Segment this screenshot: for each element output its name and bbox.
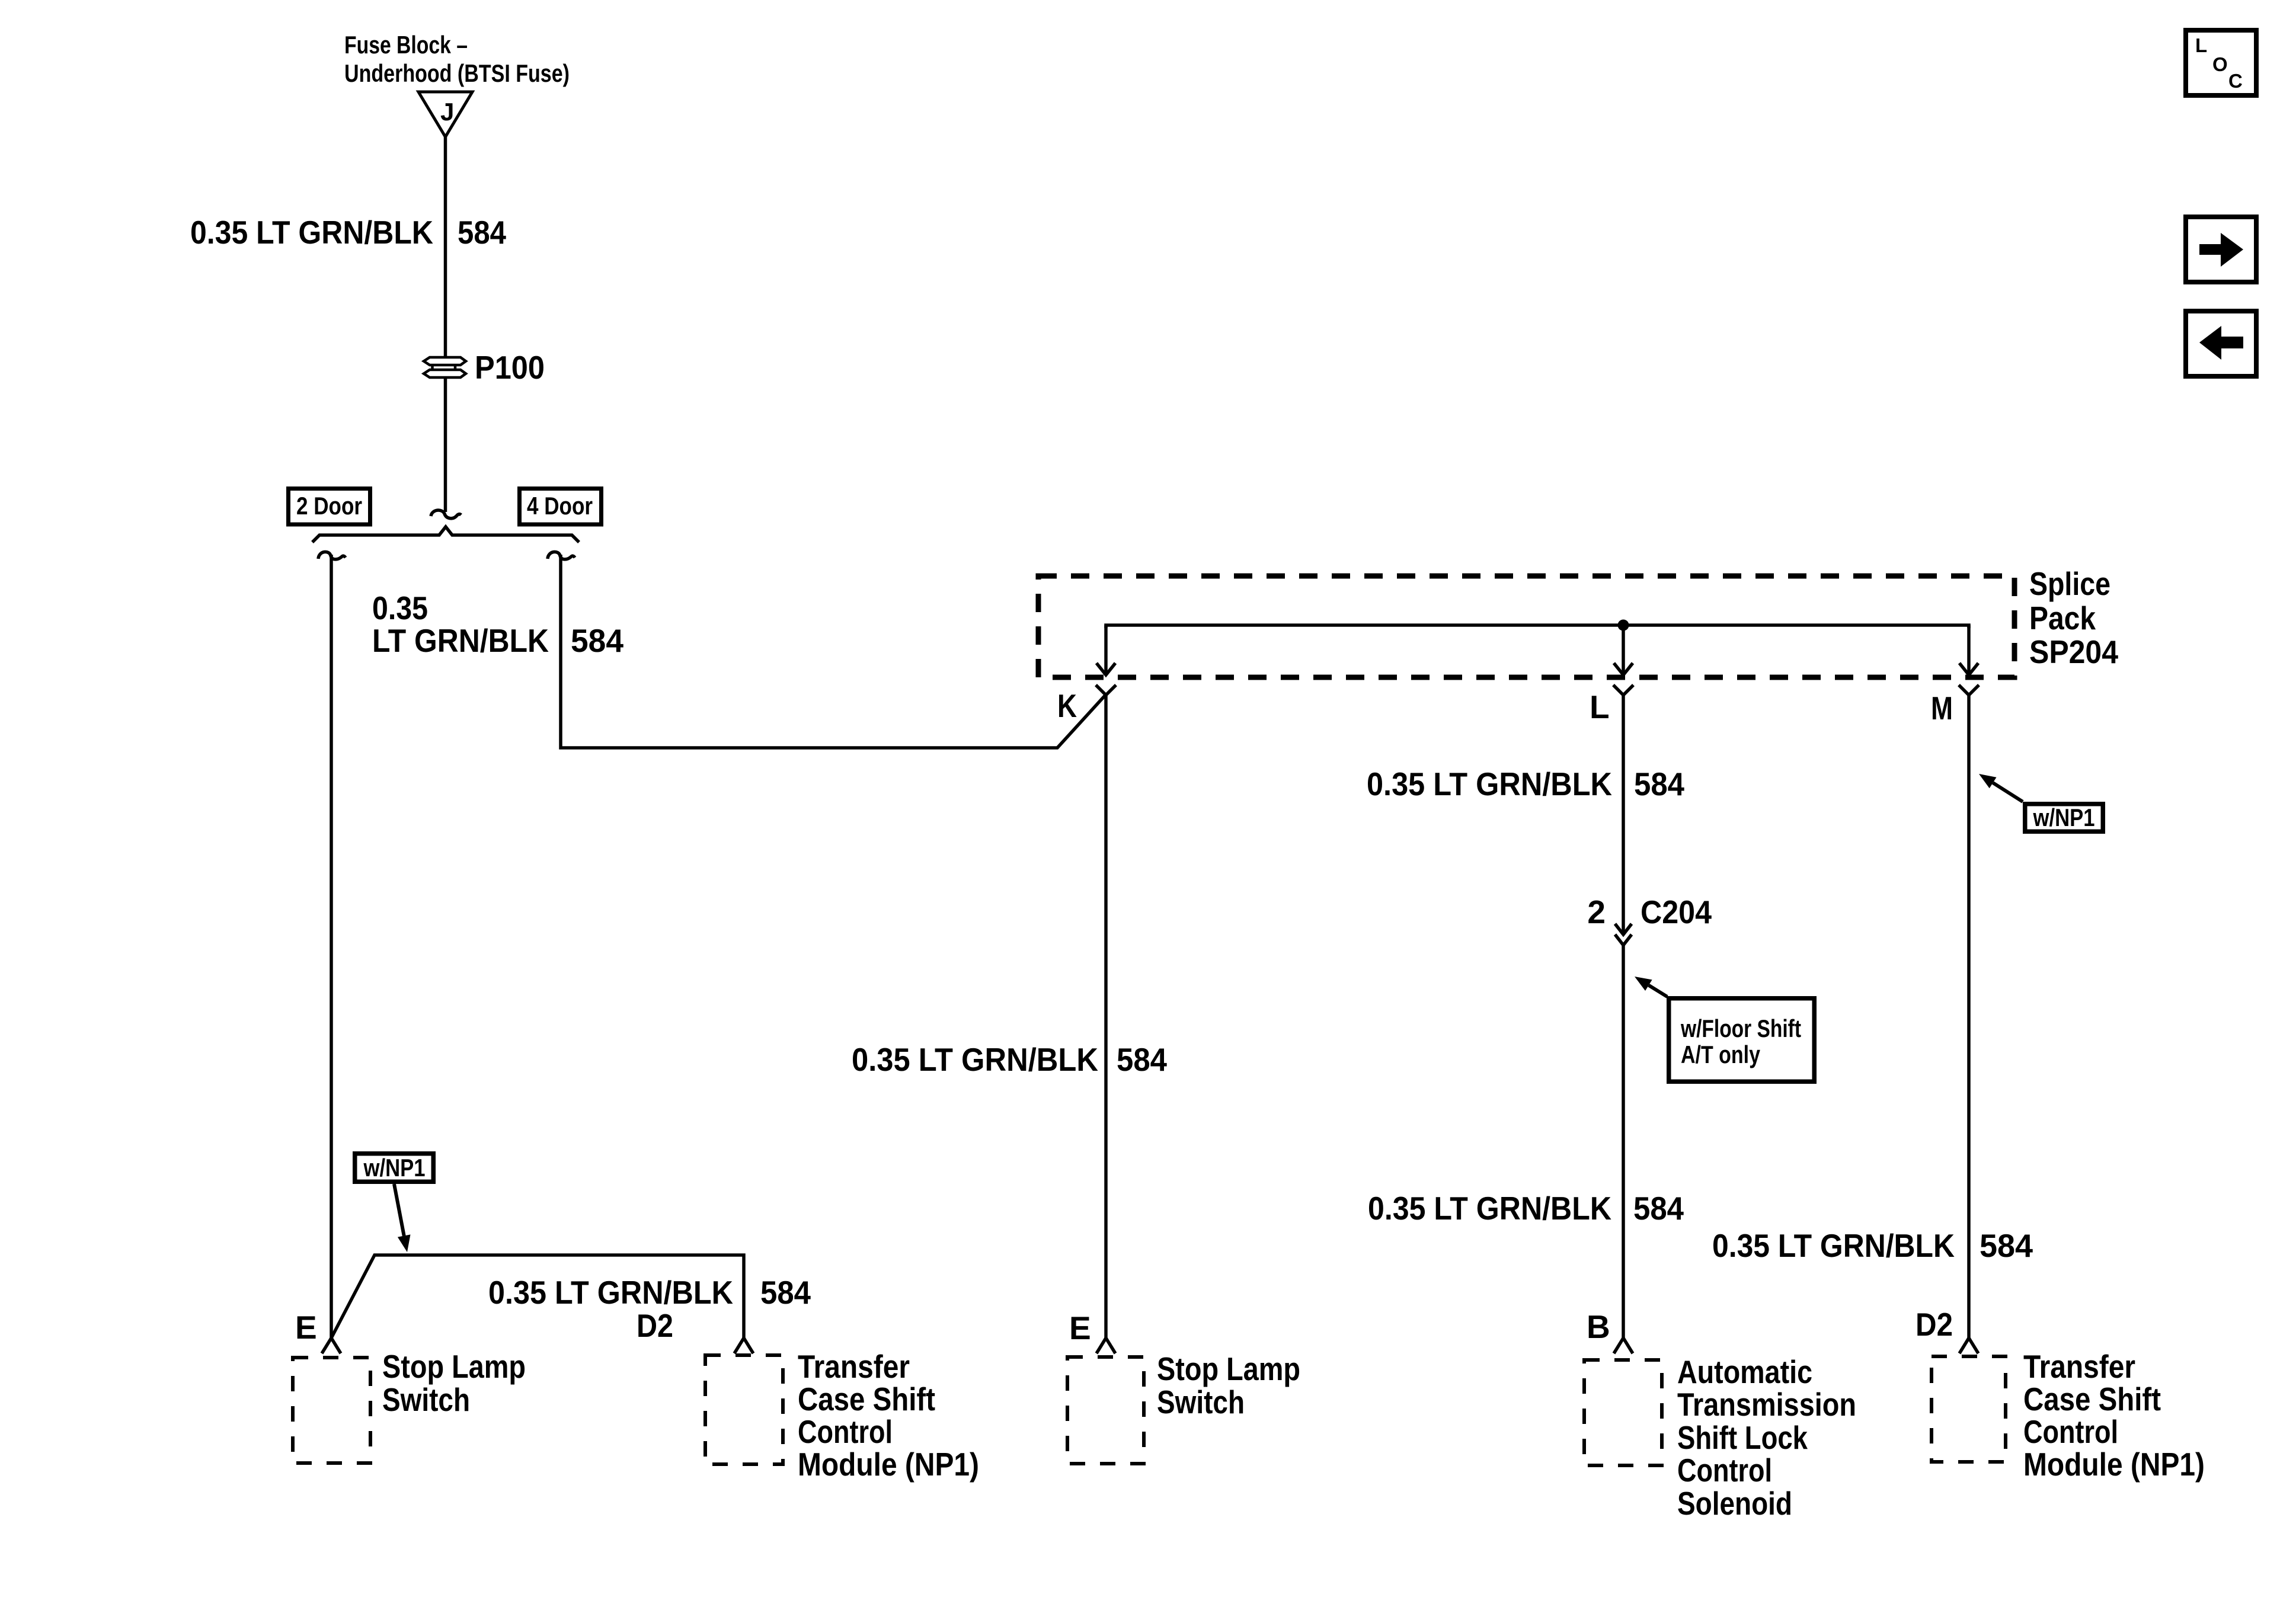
svg-text:M: M [1931,690,1953,726]
svg-text:w/NP1: w/NP1 [363,1154,426,1182]
annotation arrow to M wire [1993,783,2023,802]
svg-text:D2: D2 [1916,1306,1953,1343]
option box 2 Door [289,489,370,525]
svg-text:Stop Lamp: Stop Lamp [1157,1350,1300,1387]
svg-text:w/Floor Shift: w/Floor Shift [1680,1014,1801,1042]
svg-text:Automatic: Automatic [1677,1353,1812,1390]
svg-text:584: 584 [1633,1190,1684,1227]
terminal M below splice pack [1959,685,1979,695]
svg-text:584: 584 [1980,1227,2033,1264]
svg-text:B: B [1587,1308,1610,1345]
wire 4-door branch to splice pack terminal K [561,555,1106,748]
svg-text:0.35 LT GRN/BLK: 0.35 LT GRN/BLK [852,1041,1098,1078]
hook at top of 2-door branch wire [318,552,346,559]
svg-text:Fuse Block –: Fuse Block – [344,31,468,59]
svg-text:2: 2 [1587,894,1606,930]
terminal D2 at transfer case module (right) [1959,1338,1978,1353]
svg-text:Shift Lock: Shift Lock [1677,1419,1808,1456]
annotation box w/Floor Shift A/T only [1669,998,1815,1082]
svg-text:Control: Control [798,1413,893,1450]
svg-text:L: L [2195,34,2207,56]
in-line connector C204 pin 2 [1615,924,1632,934]
svg-text:Switch: Switch [382,1381,470,1418]
svg-text:Control: Control [2023,1413,2118,1450]
svg-text:C: C [2228,70,2243,92]
svg-text:K: K [1057,687,1077,724]
svg-text:Control: Control [1677,1452,1772,1489]
junction dot on bus [1618,620,1629,631]
svg-text:0.35 LT GRN/BLK: 0.35 LT GRN/BLK [1367,766,1612,802]
terminal D2 at transfer case module (left) [734,1338,753,1353]
icon right-arrow box [2186,217,2256,282]
svg-text:D2: D2 [637,1307,673,1344]
option split curl at wire end [431,510,461,518]
svg-text:Transfer: Transfer [798,1348,910,1385]
svg-text:E: E [1069,1310,1091,1346]
wire P100 to option split [444,377,447,512]
component box Transfer Case Shift Control Module (left) [705,1355,783,1464]
wire K branch down to stop lamp switch [1104,695,1108,1338]
connector J triangle from Fuse Block [418,92,472,137]
svg-text:L: L [1590,689,1610,725]
wire from E junction to transfer case module D2 [331,1255,744,1338]
svg-text:584: 584 [760,1274,811,1311]
option split brace [312,527,579,542]
component box Stop Lamp Switch (left) [293,1358,370,1463]
svg-text:Stop Lamp: Stop Lamp [382,1348,526,1385]
svg-text:Solenoid: Solenoid [1677,1485,1792,1522]
svg-text:C204: C204 [1641,894,1712,930]
terminal E at stop lamp switch (left) [322,1338,341,1353]
svg-text:0.35 LT GRN/BLK: 0.35 LT GRN/BLK [1712,1227,1955,1264]
svg-text:0.35 LT GRN/BLK: 0.35 LT GRN/BLK [1368,1190,1611,1227]
svg-text:584: 584 [458,214,506,251]
splice drop with arrowhead at M [1967,625,1971,674]
svg-text:Module (NP1): Module (NP1) [798,1446,979,1483]
svg-text:LT GRN/BLK: LT GRN/BLK [372,622,549,659]
splice pack SP204 dashed box [1038,576,2014,677]
svg-text:w/NP1: w/NP1 [2033,804,2095,831]
svg-text:SP204: SP204 [2029,633,2118,670]
svg-text:0.35: 0.35 [372,590,428,626]
svg-text:Pack: Pack [2029,600,2096,636]
component box Stop Lamp Switch (middle) [1067,1357,1144,1464]
svg-text:0.35 LT GRN/BLK: 0.35 LT GRN/BLK [190,214,433,251]
wire J to P100 [444,137,447,357]
icon left-arrow box [2186,311,2256,376]
svg-text:0.35 LT GRN/BLK: 0.35 LT GRN/BLK [488,1274,733,1311]
svg-text:E: E [295,1309,317,1346]
svg-text:584: 584 [1117,1041,1167,1078]
svg-text:Splice: Splice [2029,565,2110,602]
svg-text:2 Door: 2 Door [296,492,362,520]
terminal L below splice pack [1613,685,1633,695]
svg-text:4 Door: 4 Door [527,492,593,520]
svg-text:Case Shift: Case Shift [798,1381,935,1417]
splice bus wire [1106,625,1969,628]
splice drop with arrowhead at K [1104,625,1108,674]
svg-text:584: 584 [571,622,623,659]
svg-text:Underhood (BTSI Fuse): Underhood (BTSI Fuse) [344,59,570,87]
option box 4 Door [520,489,602,525]
wire L branch below C204 to solenoid B [1622,945,1625,1338]
terminal B at shift lock solenoid [1614,1338,1633,1353]
terminal K below splice pack [1096,685,1116,695]
component box Transfer Case Shift Control Module (right) [1932,1356,2006,1462]
annotation arrow down to wire [394,1184,404,1236]
wire M branch down to transfer case module D2 [1967,695,1971,1338]
grommet P100 [424,357,466,377]
svg-text:J: J [440,98,454,126]
svg-text:Transfer: Transfer [2023,1348,2135,1385]
annotation arrow to L wire [1649,985,1667,997]
svg-text:584: 584 [1634,766,1684,802]
svg-text:P100: P100 [475,349,545,386]
wire L branch down to C204 [1622,695,1625,933]
svg-text:Transmission: Transmission [1677,1386,1856,1423]
svg-text:O: O [2212,53,2228,75]
splice drop with arrowhead at L [1622,625,1625,674]
svg-text:Case Shift: Case Shift [2023,1381,2161,1417]
annotation box w/NP1 (M branch) [2025,804,2103,832]
annotation box w/NP1 (2-door branch) [355,1154,434,1182]
terminal E at stop lamp switch (middle) [1096,1338,1115,1353]
icon LOC box [2186,30,2256,95]
svg-text:Module (NP1): Module (NP1) [2023,1446,2205,1483]
component box Automatic Transmission Shift Lock Control Solenoid [1584,1360,1662,1465]
svg-text:Switch: Switch [1157,1384,1245,1420]
wire 2-door branch down to stop lamp switch E [330,555,333,1338]
hook at top of 4-door branch wire [548,552,575,559]
svg-text:A/T only: A/T only [1681,1041,1761,1068]
